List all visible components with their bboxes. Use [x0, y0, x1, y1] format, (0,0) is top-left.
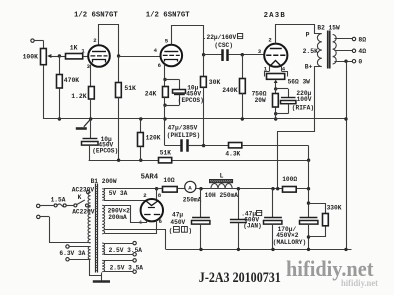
watermark hifidiy.net small — [341, 279, 379, 289]
node: stage2 supply node — [202, 144, 205, 147]
pin 2 label V1 — [93, 37, 97, 44]
transformer B2 output primary 2.5K — [303, 34, 322, 67]
wire: 5V winding top to B+ rail — [104, 188, 157, 190]
title J-2A3 20100731 — [199, 270, 281, 286]
svg-text:AC230V: AC230V — [72, 186, 95, 193]
node B: V2 plate node — [202, 53, 205, 56]
svg-text:(EPCOS): (EPCOS) — [92, 148, 118, 155]
svg-text:4.3K: 4.3K — [225, 151, 240, 158]
wire: stage1 supply node — [89, 159, 309, 162]
pin 1 label V1 — [81, 48, 85, 55]
watermark hifidiy.net large — [286, 256, 374, 281]
capacitor 10u/450V EPCOS V2 cathode bypass — [165, 80, 204, 106]
svg-text:.22µ/160V: .22µ/160V — [203, 34, 237, 41]
node: audio input terminal — [31, 39, 44, 49]
svg-text:hifidiy.net: hifidiy.net — [286, 256, 374, 281]
pin 6 label V2 — [158, 62, 162, 69]
wire: AC input low side — [40, 217, 91, 244]
svg-text:56Ω 3W: 56Ω 3W — [288, 78, 311, 85]
resistor 240K 2A3 grid leak — [222, 55, 245, 119]
svg-text:100V: 100V — [297, 96, 312, 103]
label 5V 3A — [109, 190, 128, 197]
tube V1 1/2 6SN7GT first triode — [88, 45, 110, 67]
capacitor .22u/160V oil CSC coupling — [203, 34, 243, 61]
svg-text:L: L — [220, 173, 224, 180]
wire: V2 cathode — [163, 64, 166, 81]
node: cathode network junction — [274, 112, 288, 121]
wire: node B to coupling cap — [204, 54, 222, 56]
wire: supply jog to node — [307, 146, 310, 189]
label B+ — [305, 63, 313, 70]
svg-text:1.2K: 1.2K — [71, 93, 87, 100]
wire: 0 tap ground return — [346, 61, 348, 249]
transformer B1 6.3V winding — [88, 247, 90, 260]
resistor 51K supply dropper — [159, 150, 172, 163]
node wiper junction — [58, 54, 61, 57]
svg-text:B2 15W: B2 15W — [317, 24, 340, 31]
svg-text:450V×2: 450V×2 — [276, 232, 299, 239]
node: AC230V tap — [87, 191, 91, 194]
fuse 1.5A — [40, 197, 74, 207]
svg-text:1/2 6SN7GT: 1/2 6SN7GT — [146, 12, 190, 20]
svg-text:(: ( — [169, 227, 173, 234]
potentiometer 100K volume — [23, 49, 60, 65]
resistor 24K V2 cathode bias — [145, 80, 169, 120]
svg-text:hifidiy.net: hifidiy.net — [341, 279, 379, 289]
svg-text:120K: 120K — [146, 134, 161, 141]
wire: HV center tap to ground rail — [105, 230, 166, 250]
transformer B1 2.5V winding b — [102, 259, 143, 274]
svg-text:0: 0 — [358, 59, 362, 66]
ground rail (signal ground) — [44, 117, 348, 120]
svg-text:6.3V 3A: 6.3V 3A — [59, 250, 85, 257]
resistor 10 ohm — [157, 177, 178, 192]
svg-text:47µ/385V: 47µ/385V — [168, 125, 198, 132]
label B1 200W — [91, 178, 117, 185]
svg-text:30K: 30K — [209, 79, 221, 86]
svg-text:(CSC): (CSC) — [214, 42, 233, 49]
label 8 ohm — [358, 36, 366, 43]
tube U1 5AR4 rectifier — [141, 199, 163, 221]
svg-text:(JAN): (JAN) — [243, 223, 262, 230]
svg-text:24K: 24K — [145, 90, 157, 97]
label 2A3B — [264, 12, 286, 20]
pin 3 label V1 — [87, 63, 91, 70]
svg-text:5AR4: 5AR4 — [141, 174, 159, 182]
svg-text:100Ω: 100Ω — [282, 176, 297, 183]
svg-text:1.5A: 1.5A — [51, 197, 66, 204]
capacitor 170u/450V MALLORY filter cap3 — [264, 189, 282, 250]
pin 2 label 2A3 — [268, 37, 272, 44]
wire: HV bottom to pin6 — [105, 221, 157, 234]
transformer B2 secondary — [333, 35, 337, 64]
svg-text:P: P — [306, 31, 310, 38]
choke L 10H 250mA — [205, 173, 239, 200]
transformer B1 2.5V winding a — [102, 241, 142, 256]
svg-text:B1 200W: B1 200W — [91, 178, 117, 185]
wire: 6.3V one side to ground — [90, 260, 102, 276]
resistor 120K bleeder — [138, 119, 161, 160]
pin 2 label 5AR4 — [143, 192, 147, 199]
svg-text:51K: 51K — [124, 85, 136, 92]
transformer B1 HV winding 290Vx2 — [102, 205, 130, 234]
wire: coupling cap to 2A3 grid — [228, 53, 264, 56]
label 4 ohm — [358, 48, 366, 55]
svg-text:(PHILIPS): (PHILIPS) — [167, 132, 200, 139]
svg-text:240K: 240K — [222, 87, 238, 94]
svg-text:(EPCOS): (EPCOS) — [178, 97, 204, 104]
resistor 1.2K V1 cathode — [71, 65, 94, 119]
label AC230V — [72, 186, 95, 193]
svg-text:250mA: 250mA — [183, 197, 202, 204]
B+ rail — [196, 187, 310, 190]
svg-text:200mA: 200mA — [108, 214, 127, 221]
svg-text:10Ω: 10Ω — [163, 177, 174, 184]
capacitor 47u/385V PHILIPS stage2 decoupling — [165, 125, 204, 152]
node: hum pot wiper junction — [274, 87, 277, 90]
capacitor 220u/100V RIFA cathode bypass — [276, 89, 314, 114]
wire: HV top to pin4 — [105, 206, 147, 223]
wire: secondary 8 ohm tap — [334, 37, 355, 40]
pin 4 label 5AR4 — [139, 219, 143, 226]
svg-text:(RIFA): (RIFA) — [292, 105, 314, 112]
pin 6 label 5AR4 — [159, 218, 163, 225]
svg-text:5V 3A: 5V 3A — [109, 190, 128, 197]
label 170u/450Vx2 (MALLORY) — [273, 226, 306, 246]
label B2 15W — [317, 24, 340, 31]
label 0 — [358, 59, 362, 66]
transformer B2 core — [328, 31, 330, 69]
label AC220V — [72, 208, 95, 215]
wire: V2 plate jog to node B — [172, 26, 204, 55]
svg-text:450V: 450V — [170, 219, 185, 226]
label 1/2 6SN7GT (V2) — [146, 12, 190, 20]
label P — [306, 31, 310, 38]
resistor 100 ohm — [282, 176, 297, 192]
svg-text:1K: 1K — [70, 44, 78, 51]
svg-text:10H 250mA: 10H 250mA — [205, 192, 239, 199]
resistor 330K bleeder — [309, 204, 342, 237]
wire: philips cap ground riser — [164, 119, 166, 146]
pin 4 label 2A3 — [282, 65, 286, 72]
transformer B1 primary winding — [88, 192, 91, 243]
chassis ground symbol — [76, 119, 91, 129]
label 1/2 6SN7GT (V1) — [74, 12, 118, 20]
svg-text:J-2A3 20100731: J-2A3 20100731 — [199, 270, 281, 286]
ground: transformer core ground — [93, 273, 110, 282]
svg-text:A: A — [188, 184, 192, 191]
resistor 1K grid stopper — [66, 44, 83, 59]
transformer B1 core — [95, 184, 98, 273]
wire: 2A3 filament leads to hum pot — [265, 66, 288, 76]
pin 8 label 5AR4 — [158, 192, 162, 199]
svg-text:B+: B+ — [305, 63, 313, 70]
svg-text:47µ: 47µ — [172, 212, 183, 219]
node: 6.3V heater terminals — [59, 245, 90, 261]
resistor 51K V1 plate load — [116, 56, 137, 160]
wire: 2A3 plate to OPT primary — [276, 25, 322, 44]
capacitor 47u/450V (HePing) filter cap1 — [169, 189, 210, 250]
switch K mains selector — [74, 194, 91, 207]
resistor 30K V2 plate load — [201, 55, 221, 146]
svg-text:1/2 6SN7GT: 1/2 6SN7GT — [74, 12, 118, 20]
svg-text:K: K — [78, 194, 82, 201]
capacitor .47u oil 600V JAN filter cap2 — [230, 189, 262, 250]
wire: OPT primary bottom B+ feed — [278, 67, 322, 189]
resistor 470K grid leak — [57, 56, 80, 121]
resistor 4.3K supply dropper — [204, 143, 309, 158]
svg-text:20W: 20W — [255, 97, 266, 104]
resistor 750 ohm 20W cathode bias — [252, 89, 279, 114]
pin 5 label V2 — [165, 37, 169, 44]
pin 4 label V2 — [154, 47, 158, 54]
svg-text:100K: 100K — [23, 53, 39, 60]
svg-text:470K: 470K — [64, 77, 80, 84]
wire: secondary 4 ohm tap — [334, 49, 355, 52]
svg-text:2.5V 3.5A: 2.5V 3.5A — [110, 265, 144, 272]
svg-text:2.5V 3.5A: 2.5V 3.5A — [109, 247, 143, 254]
ground rail bottom — [166, 248, 352, 251]
tube V2 1/2 6SN7GT second triode — [161, 45, 183, 67]
wire: secondary 0 tap — [334, 60, 355, 63]
potentiometer 56 ohm 3W hum balance — [267, 74, 311, 89]
transformer B1 5V winding — [102, 189, 104, 201]
svg-text:2.5K: 2.5K — [303, 48, 319, 55]
svg-text:): ) — [188, 227, 192, 234]
svg-text:(MALLORY): (MALLORY) — [273, 239, 306, 246]
wire: 5V winding bottom to pin2 — [104, 200, 145, 202]
pin 3 label 2A3 — [258, 48, 262, 55]
wire: V1 plate jog to node A — [99, 25, 119, 57]
node: rectifier output pin8 — [155, 187, 158, 199]
wire: node A to V2 grid pin4 — [119, 56, 161, 58]
svg-text:2A3B: 2A3B — [264, 12, 286, 20]
svg-text:8Ω: 8Ω — [358, 36, 366, 43]
tube V3 2A3B output — [264, 44, 287, 67]
svg-text:51K: 51K — [160, 150, 171, 157]
wire: 1K to V1 grid pin1 — [83, 56, 88, 58]
node: AC input terminals — [37, 204, 41, 218]
label 5AR4 — [141, 174, 159, 182]
wire: wiper to 1K — [59, 56, 65, 58]
node A: V1 plate / V2 grid junction — [117, 54, 120, 57]
pin 1 label 2A3 — [264, 65, 268, 72]
svg-text:4Ω: 4Ω — [358, 48, 366, 55]
svg-text:AC220V: AC220V — [72, 208, 95, 215]
svg-text:330K: 330K — [327, 205, 342, 212]
ammeter A 250mA — [177, 181, 201, 203]
capacitor 170u/450V MALLORY filter cap4 — [300, 189, 318, 250]
capacitor 10u/450V EPCOS stage1 decoupling — [82, 119, 119, 160]
wire: pot bottom to ground rail — [43, 65, 45, 119]
